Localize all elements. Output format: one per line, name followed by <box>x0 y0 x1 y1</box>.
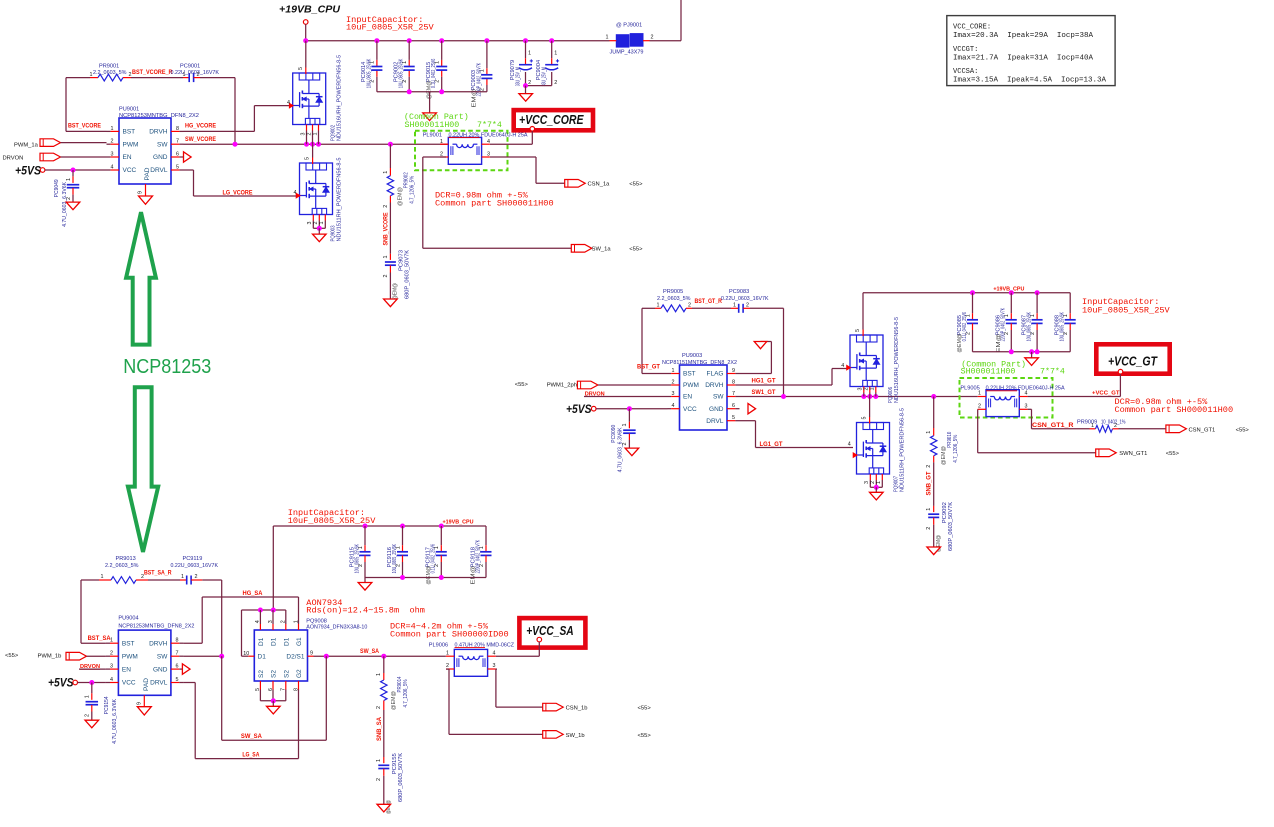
svg-text:1: 1 <box>183 72 186 78</box>
svg-text:NCP81253MNTBG_DFN8_2X2: NCP81253MNTBG_DFN8_2X2 <box>118 623 194 629</box>
svg-text:VCCGT:: VCCGT: <box>953 46 978 54</box>
svg-text:@ PJ9001: @ PJ9001 <box>616 23 642 29</box>
resistor PR9002 4.7_1206_5% <box>383 144 416 208</box>
svg-text:4: 4 <box>1025 391 1028 397</box>
ground PU9001 GND pin <box>184 152 192 162</box>
svg-text:<55>: <55> <box>515 382 529 388</box>
svg-text:4.7_1206_5%: 4.7_1206_5% <box>953 435 959 463</box>
svg-text:DRVL: DRVL <box>706 418 724 425</box>
net label LG_VCORE <box>223 189 253 196</box>
wire SA cap gnd rail <box>365 575 486 583</box>
svg-text:1: 1 <box>528 51 531 57</box>
svg-text:2.2_0603_5%: 2.2_0603_5% <box>105 563 139 569</box>
svg-text:HG_SA: HG_SA <box>243 590 264 597</box>
capacitor PC9117 <box>426 526 447 585</box>
net label +19VB_CPU (SA) <box>443 520 474 526</box>
svg-text:PC9154: PC9154 <box>104 696 110 714</box>
svg-text:GND: GND <box>153 666 168 673</box>
resistor PR9009 10_0402_1% <box>1077 420 1126 433</box>
svg-text:PWM_1a: PWM_1a <box>14 143 39 149</box>
svg-text:9: 9 <box>138 191 144 194</box>
svg-text:LG_SA: LG_SA <box>242 752 259 759</box>
svg-text:1: 1 <box>101 574 104 580</box>
svg-text:2: 2 <box>383 275 389 278</box>
svg-text:2: 2 <box>926 527 932 530</box>
svg-text:SW_1a: SW_1a <box>592 247 612 253</box>
svg-text:NCP81253: NCP81253 <box>123 356 211 378</box>
svg-text:PWM: PWM <box>123 141 139 148</box>
wire +19VB_CPU bus <box>303 0 681 43</box>
output connector CSN_1b <box>543 703 652 711</box>
svg-text:4.7_1206_5%: 4.7_1206_5% <box>410 176 416 204</box>
capacitor PC9088 <box>1055 293 1076 352</box>
svg-text:+VCC_GT: +VCC_GT <box>1108 355 1158 369</box>
svg-text:D2/S1: D2/S1 <box>286 653 304 660</box>
svg-text:BST_SA: BST_SA <box>88 635 112 642</box>
svg-text:+5VS: +5VS <box>15 165 41 177</box>
svg-text:@EM@: @EM@ <box>957 333 963 352</box>
svg-text:PWM_1b: PWM_1b <box>38 654 62 660</box>
capacitor PC9116 <box>387 526 408 578</box>
net label SNB_VCORE <box>382 213 389 246</box>
svg-text:PU9004: PU9004 <box>118 615 138 621</box>
ground PU9001 PAD <box>139 196 153 204</box>
svg-text:7: 7 <box>176 651 179 657</box>
svg-text:EN: EN <box>123 154 132 161</box>
svg-text:1: 1 <box>606 35 609 41</box>
svg-text:9: 9 <box>732 368 735 374</box>
capacitor PC9154 4.7U_0603_6.3V6K <box>85 683 118 744</box>
svg-text:S2: S2 <box>283 670 290 678</box>
svg-text:2.2_0603_5%: 2.2_0603_5% <box>93 70 127 76</box>
svg-text:LG_VCORE: LG_VCORE <box>223 189 253 196</box>
resistor PR9013 2.2_0603_5% <box>99 556 148 583</box>
label DCR note (SA) <box>390 622 509 640</box>
svg-text:8: 8 <box>176 638 179 644</box>
svg-text:BST: BST <box>123 129 136 136</box>
svg-text:SNB_SA: SNB_SA <box>376 716 383 741</box>
svg-text:5: 5 <box>855 329 861 332</box>
ground PU9004 PAD <box>137 707 151 715</box>
ground PU9003 GND pin <box>748 404 756 414</box>
wire D1 rail to 19VB <box>242 608 286 657</box>
wire +VCC_SA <box>496 642 539 656</box>
svg-text:5: 5 <box>298 67 304 70</box>
svg-text:S2: S2 <box>271 670 278 678</box>
svg-text:S2: S2 <box>258 670 265 678</box>
svg-text:4.7_1206_5%: 4.7_1206_5% <box>403 679 409 707</box>
svg-text:7*7*4: 7*7*4 <box>477 120 502 130</box>
svg-text:1: 1 <box>672 368 675 374</box>
label InputCapacitor note (GT) <box>1082 297 1171 316</box>
svg-text:PWM: PWM <box>122 653 138 660</box>
svg-text:1: 1 <box>90 72 93 78</box>
svg-text:DRVH: DRVH <box>149 640 168 647</box>
wire BST cap to SW node (SA) <box>202 580 221 656</box>
svg-text:HG1_GT: HG1_GT <box>752 377 776 384</box>
svg-text:1: 1 <box>657 303 660 309</box>
svg-text:SW_SA: SW_SA <box>360 648 380 655</box>
wire CSN_GT1_R <box>1028 409 1090 429</box>
svg-text:4.7U_0603_6.3V6K: 4.7U_0603_6.3V6K <box>617 427 623 472</box>
svg-text:2: 2 <box>376 778 382 781</box>
wire S2 gnd rail <box>260 690 285 707</box>
wire SW1_GT <box>740 394 978 399</box>
svg-text:+VCC_CORE: +VCC_CORE <box>519 113 584 127</box>
net label CSN_GT1_R <box>1032 422 1074 429</box>
svg-text:10U_0805_25V6K: 10U_0805_25V6K <box>1060 312 1066 342</box>
svg-text:5: 5 <box>862 417 868 420</box>
svg-text:680P_0603_50V7K: 680P_0603_50V7K <box>948 502 954 551</box>
power flag +5VS (GT) <box>566 404 596 416</box>
svg-text:1: 1 <box>876 481 882 484</box>
capacitor PC9086 <box>996 293 1017 353</box>
label AON7934 Rds note <box>306 598 425 615</box>
svg-text:1: 1 <box>926 508 932 511</box>
svg-text:PR9001: PR9001 <box>99 63 119 69</box>
svg-text:PQ9008: PQ9008 <box>306 618 327 624</box>
capacitor PC9049 4.7U_0603_6.3V6K <box>54 170 79 227</box>
wire BST_SA <box>81 580 106 643</box>
wire +VCC_GT <box>1028 374 1121 397</box>
svg-text:1: 1 <box>440 139 443 145</box>
transistor PQ9007 NDU1511RH <box>848 397 906 493</box>
svg-text:PWM1_2ph: PWM1_2ph <box>547 383 577 389</box>
svg-text:BST_VCORE_R: BST_VCORE_R <box>132 69 173 76</box>
svg-text:DRVL: DRVL <box>150 680 168 687</box>
svg-text:3: 3 <box>1025 404 1028 410</box>
net label DRVON (GT) <box>584 391 668 397</box>
transistor PQ9008 AON7934 dual <box>243 618 367 691</box>
svg-text:2: 2 <box>688 303 691 309</box>
svg-text:+19VB_CPU: +19VB_CPU <box>279 3 340 15</box>
svg-text:2: 2 <box>110 651 113 657</box>
svg-text:SW1_GT: SW1_GT <box>752 389 776 396</box>
svg-text:EM@: EM@ <box>472 88 478 107</box>
IC PU9004 NCP81253MNTBG_DFN8_2X2 <box>106 615 194 706</box>
svg-text:PAD: PAD <box>144 167 151 180</box>
power flag +VCC_CORE <box>514 110 593 131</box>
svg-text:1: 1 <box>85 695 91 698</box>
svg-text:10U_0805_25V6K: 10U_0805_25V6K <box>366 59 372 89</box>
ground PC9092 <box>927 547 941 555</box>
wire CSN_1a <box>490 157 565 183</box>
svg-text:VCC: VCC <box>122 680 136 687</box>
svg-text:EM@: EM@ <box>471 565 477 584</box>
svg-text:0.22U_0603_16V7K: 0.22U_0603_16V7K <box>171 563 219 569</box>
svg-text:1: 1 <box>926 431 932 434</box>
capacitor PC9155 680P_0603_50V7K <box>376 710 404 814</box>
svg-text:1: 1 <box>376 759 382 762</box>
input reference PWM_1b <box>5 652 106 660</box>
svg-text:CSN_1a: CSN_1a <box>588 182 611 188</box>
svg-text:4.7U_0603_6.3V6K: 4.7U_0603_6.3V6K <box>112 699 118 744</box>
svg-text:NDU1516URH_POWERDFN56-8-5: NDU1516URH_POWERDFN56-8-5 <box>337 55 343 141</box>
svg-text:+5VS: +5VS <box>566 404 592 416</box>
svg-text:SW: SW <box>157 653 168 660</box>
svg-text:4: 4 <box>111 165 114 171</box>
svg-text:SW_VCORE: SW_VCORE <box>185 136 216 143</box>
svg-text:6: 6 <box>176 152 179 158</box>
svg-text:PC9090: PC9090 <box>611 425 617 443</box>
svg-text:1: 1 <box>978 391 981 397</box>
svg-text:DRVL: DRVL <box>150 167 168 174</box>
wire SW_VCORE <box>184 142 449 147</box>
capacitor PC9001 0.22U_0603_16V7K <box>171 63 220 82</box>
power flag +5VS <box>15 165 45 177</box>
net label SNB_SA <box>376 716 383 741</box>
label DCR note (GT) <box>1115 397 1234 415</box>
svg-text:VCCSA:: VCCSA: <box>953 68 978 76</box>
wire +5VS GT <box>596 406 668 411</box>
svg-text:SNB_GT: SNB_GT <box>926 471 933 495</box>
ground PQ9008 sources <box>267 706 281 714</box>
svg-text:2: 2 <box>978 404 981 410</box>
svg-text:2: 2 <box>651 35 654 41</box>
wire BST cap to SW node <box>200 78 235 145</box>
capacitor PC9119 0.22U_0603_16V7K <box>148 556 218 585</box>
ground PQ9003 sources <box>313 234 327 242</box>
svg-text:PL9001: PL9001 <box>423 132 442 138</box>
svg-text:1: 1 <box>870 388 876 391</box>
svg-text:3: 3 <box>111 152 114 158</box>
svg-text:@EM@: @EM@ <box>393 283 399 300</box>
connector PJ9001 JUMP_43X79 <box>606 23 654 56</box>
svg-text:@EM@: @EM@ <box>391 691 397 710</box>
svg-text:2: 2 <box>1114 423 1117 429</box>
svg-text:NDU1516URH_POWERDFN56-8-5: NDU1516URH_POWERDFN56-8-5 <box>894 317 900 403</box>
svg-text:AON7934_DFN3X3A8-10: AON7934_DFN3X3A8-10 <box>306 625 367 631</box>
svg-text:PL9006: PL9006 <box>429 643 448 649</box>
wire +19VB_CPU SA rail <box>273 524 486 611</box>
wire FLAG net <box>740 342 772 374</box>
input connector DRVON <box>3 153 107 161</box>
svg-text:Common part SH000011H00: Common part SH000011H00 <box>435 199 554 209</box>
svg-text:<55>: <55> <box>638 733 652 739</box>
svg-text:G2: G2 <box>296 669 303 678</box>
ground PU9004 GND pin <box>182 664 190 674</box>
svg-text:EN: EN <box>683 394 692 401</box>
net label BST_GT <box>637 364 660 371</box>
power flag +VCC_SA <box>519 618 585 648</box>
capacitor PC9014 <box>361 41 382 92</box>
svg-text:1: 1 <box>622 424 628 427</box>
svg-text:PC9049: PC9049 <box>54 179 60 197</box>
output connector SW_1a <box>571 245 643 253</box>
svg-text:2: 2 <box>85 714 91 717</box>
svg-text:BST_SA_R: BST_SA_R <box>144 569 172 576</box>
svg-text:1: 1 <box>1091 423 1094 429</box>
svg-text:5: 5 <box>732 415 735 421</box>
resistor PR9010 4.7_1206_5% <box>926 397 959 468</box>
label InputCapacitor note (SA) <box>288 508 377 526</box>
svg-text:<55>: <55> <box>638 706 652 712</box>
svg-text:Imax=21.7A Ipeak=31A Iocp=40: Imax=21.7A Ipeak=31A Iocp=40A <box>953 54 1094 62</box>
wire BST cap to SW1_GT <box>750 308 784 396</box>
svg-text:8: 8 <box>176 126 179 132</box>
svg-text:<55>: <55> <box>629 247 643 253</box>
svg-text:BST: BST <box>683 371 696 378</box>
label DCR note (VCORE) <box>435 190 554 208</box>
capacitor PC9083 0.22U_0603_16V7K <box>692 289 769 313</box>
net label +19VB_CPU (GT) <box>993 286 1024 292</box>
svg-text:1: 1 <box>383 256 389 259</box>
svg-text:<55>: <55> <box>1236 428 1250 434</box>
wire BST_GT <box>642 308 668 373</box>
svg-text:NDU1511RH_POWERDFN56-8-5: NDU1511RH_POWERDFN56-8-5 <box>337 158 343 242</box>
power flag +5VS (SA) <box>48 678 77 690</box>
svg-text:<55>: <55> <box>1166 451 1180 457</box>
svg-text:CSN_1b: CSN_1b <box>566 706 588 712</box>
svg-text:D1: D1 <box>271 637 278 646</box>
svg-text:33U_25V_M: 33U_25V_M <box>542 67 548 86</box>
svg-text:CSN_GT1: CSN_GT1 <box>1189 428 1216 434</box>
label NCP81253 <box>123 356 211 378</box>
ground PC9073 <box>384 299 398 307</box>
resistor PR9001 2.2_0603_5% <box>90 63 132 81</box>
svg-text:9: 9 <box>310 651 313 657</box>
svg-text:VCC: VCC <box>683 406 697 413</box>
svg-text:1: 1 <box>554 51 557 57</box>
capacitor PC9079 33U_25V_M <box>510 41 533 87</box>
svg-text:10U_0805_25V6K: 10U_0805_25V6K <box>1027 312 1033 342</box>
inductor PL9005 0.22UH FDUE0640J-H <box>960 386 1064 417</box>
ground electrolytic <box>519 94 533 102</box>
wire HG1_GT <box>740 369 847 386</box>
IC PU9001 NCP81253MNTBG_DFN8_2X2 <box>107 107 200 197</box>
svg-text:2: 2 <box>197 72 200 78</box>
svg-text:PR9009: PR9009 <box>1077 420 1097 426</box>
ground FLAG <box>754 342 767 349</box>
capacitor PC9090 4.7U_0603_6.3V6K <box>611 409 636 473</box>
svg-text:SH000011H00: SH000011H00 <box>961 368 1016 377</box>
svg-text:@EM@: @EM@ <box>398 187 404 206</box>
svg-text:NCP81151MNTBG_DFN8_2X2: NCP81151MNTBG_DFN8_2X2 <box>662 360 737 366</box>
svg-text:<55>: <55> <box>5 653 19 659</box>
net label SNB_GT <box>926 471 933 495</box>
svg-text:PL9005: PL9005 <box>960 386 979 392</box>
svg-text:EM@: EM@ <box>996 333 1002 352</box>
svg-text:10uF_0805_X5R_25V: 10uF_0805_X5R_25V <box>288 516 377 526</box>
svg-text:7: 7 <box>732 391 735 397</box>
svg-text:BST: BST <box>122 640 135 647</box>
svg-text:SW: SW <box>713 394 724 401</box>
svg-text:1: 1 <box>446 650 449 656</box>
input connector PWM_1a <box>14 139 107 149</box>
svg-text:8: 8 <box>732 380 735 386</box>
net label BST_GT_R <box>695 298 723 305</box>
output connector CSN_GT1 <box>1166 425 1250 434</box>
power flag +19VB_CPU <box>279 3 340 24</box>
svg-text:4: 4 <box>487 139 490 145</box>
svg-text:2: 2 <box>446 663 449 669</box>
wire +VCC_CORE to inductor <box>490 131 532 144</box>
capacitor PC9015 <box>426 41 447 100</box>
svg-text:10uF_0805_X5R_25V: 10uF_0805_X5R_25V <box>346 22 435 32</box>
svg-text:9: 9 <box>137 702 143 705</box>
svg-text:10U_0805_25V6K: 10U_0805_25V6K <box>392 544 398 574</box>
svg-text:Common part SH000011H00: Common part SH000011H00 <box>1115 405 1234 415</box>
capacitor PC9087 <box>1021 293 1042 352</box>
wire SW_1b <box>446 669 543 734</box>
svg-text:PU9003: PU9003 <box>682 353 702 359</box>
svg-text:10uF_0805_X5R_25V: 10uF_0805_X5R_25V <box>1082 306 1171 316</box>
svg-text:VCC: VCC <box>123 167 137 174</box>
common part dashed box <box>415 131 508 171</box>
wire +5VS SA <box>77 680 106 685</box>
ground PC9155 <box>377 804 391 812</box>
svg-text:PC9001: PC9001 <box>180 63 200 69</box>
svg-text:HG_VCORE: HG_VCORE <box>185 122 216 129</box>
capacitor PC9002 <box>394 41 415 92</box>
svg-text:33U_25V_M: 33U_25V_M <box>515 67 521 86</box>
svg-text:2: 2 <box>672 380 675 386</box>
wire CSN_1b <box>496 669 543 707</box>
svg-text:BST_VCORE: BST_VCORE <box>68 123 101 130</box>
label Common Part green (VCORE) <box>404 112 502 130</box>
svg-text:FLAG: FLAG <box>707 371 724 378</box>
output connector CSN_1a <box>565 180 643 188</box>
green arrow up NCP81253 <box>126 212 156 344</box>
svg-text:2.2_0603_5%: 2.2_0603_5% <box>657 296 691 302</box>
inductor PL9001 0.22UH FDUE0640J-H <box>423 132 528 164</box>
svg-text:5: 5 <box>176 677 179 683</box>
svg-text:7*7*4: 7*7*4 <box>1040 367 1065 377</box>
capacitor PC9092 680P_0603_50V7K <box>926 462 954 552</box>
net label LG_SA <box>242 752 259 759</box>
net label LG1_GT <box>760 441 783 448</box>
wire LG_SA <box>183 683 298 759</box>
capacitor PC9073 680P_0603_50V7K <box>383 203 411 301</box>
transistor PQ9003 NDU1511RH <box>294 144 343 241</box>
svg-text:EN: EN <box>122 666 131 673</box>
net label BST_SA <box>88 635 112 642</box>
svg-text:<55>: <55> <box>629 182 643 188</box>
svg-text:1: 1 <box>383 171 389 174</box>
transistor PQ9006 NDU1516URH <box>841 317 900 403</box>
svg-text:1: 1 <box>293 620 299 623</box>
svg-text:5: 5 <box>305 157 311 160</box>
capacitor PC9003 <box>471 41 492 108</box>
ground SA cap bank <box>358 583 372 591</box>
input reference PWM1_2ph <box>515 381 668 389</box>
svg-text:PC9119: PC9119 <box>183 556 203 562</box>
svg-text:DRVON: DRVON <box>3 156 24 162</box>
svg-text:1: 1 <box>733 303 736 309</box>
svg-text:JUMP_43X79: JUMP_43X79 <box>610 50 644 56</box>
svg-text:1: 1 <box>181 574 184 580</box>
net label SW_SA loop <box>241 733 263 740</box>
wire CSN_GT1 <box>1119 428 1166 430</box>
ground PC9090 <box>625 448 639 456</box>
wire LG_VCORE <box>184 170 297 196</box>
svg-text:SH000011H00: SH000011H00 <box>405 121 460 130</box>
wire BST_VCORE_R <box>131 77 183 79</box>
svg-text:Rds(on)=12.4~15.8m ohm: Rds(on)=12.4~15.8m ohm <box>306 605 425 615</box>
net label SW1_GT <box>752 389 776 396</box>
svg-text:PWM: PWM <box>683 382 699 389</box>
capacitor PC9115 <box>349 526 370 578</box>
svg-text:6: 6 <box>732 403 735 409</box>
notes box power specs <box>947 16 1115 86</box>
ground GT cap bank <box>1025 358 1039 366</box>
svg-text:2: 2 <box>554 80 557 86</box>
svg-text:Imax=20.3A Ipeak=29A Iocp=38: Imax=20.3A Ipeak=29A Iocp=38A <box>953 32 1094 40</box>
svg-text:680P_0603_50V7K: 680P_0603_50V7K <box>405 250 411 299</box>
svg-text:4: 4 <box>110 677 113 683</box>
svg-text:2: 2 <box>376 706 382 709</box>
svg-text:D1: D1 <box>258 653 267 660</box>
